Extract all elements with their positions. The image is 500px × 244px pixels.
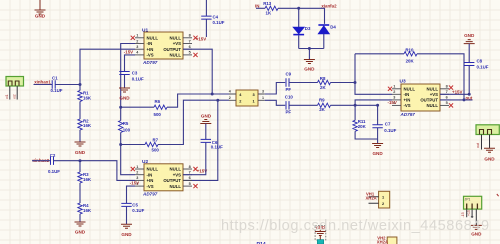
svg-text:8: 8 [189,34,191,38]
wire rail to ground [308,49,310,60]
resistor R11 wire from node [354,105,356,120]
capacitor C6 [201,139,211,142]
junction C7 top [376,104,379,107]
svg-text:7: 7 [446,90,448,94]
svg-text:7: 7 [189,171,191,175]
svg-text:7: 7 [189,39,191,43]
svg-text:-VS: -VS [147,53,154,58]
svg-text:2: 2 [136,171,138,175]
svg-text:1: 1 [136,165,138,169]
svg-text:JP1: JP1 [465,198,471,202]
node A junction [79,83,82,86]
svg-text:U3: U3 [400,79,406,85]
resistor R6 [154,105,167,109]
capacitor C7 wire from node [377,105,379,124]
svg-text:R8: R8 [320,76,326,81]
wire R6 left [121,106,154,108]
svg-text:U1: U1 [142,27,148,33]
svg-text:5: 5 [446,101,448,105]
op-amp U2 AD797 [144,164,183,191]
svg-text:AD797: AD797 [142,60,158,65]
svg-text:GND: GND [75,230,86,235]
svg-text:U2: U2 [142,159,148,165]
svg-text:3: 3 [136,45,138,49]
no-connect X on U1 pin 5 [193,53,197,57]
wire U2 output up [183,100,218,180]
wire R9 to U3 +IN and C7 top [331,100,393,105]
svg-text:NULL: NULL [170,184,182,189]
svg-text:20K: 20K [406,58,415,63]
svg-text:16K: 16K [83,208,92,213]
wire C3 to ground [124,75,126,88]
svg-text:5: 5 [189,182,191,186]
svg-text:+15V: +15V [196,36,206,41]
svg-text:500: 500 [154,112,162,117]
capacitor C5 [121,203,131,206]
filter pin stubs [229,94,265,100]
wire R2 to ground [79,130,81,142]
svg-text:-IN: -IN [147,41,153,46]
no-connect X on U1 pin 8 [193,36,197,40]
capacitor C4 +15V decoupling wire [205,0,207,16]
svg-text:GND: GND [304,67,315,72]
connector CON2 leads [482,135,490,150]
wire ground to C8 [468,44,470,63]
capacitor C3 wire from U1 -VS [125,55,136,71]
svg-text:0.1UF: 0.1UF [213,20,225,25]
svg-text:1: 1 [136,34,138,38]
svg-text:+IN: +IN [147,47,154,52]
diode D3 [293,27,304,33]
wire U3 +VS pin 7 [440,93,469,95]
connector CON1 pin leads [10,86,17,100]
svg-text:C3: C3 [132,71,138,76]
capacitor C9 [286,78,289,86]
svg-text:C10: C10 [285,94,294,99]
wire node B to U2 +IN [80,161,135,181]
svg-text:IN: IN [255,3,259,8]
svg-text:PF: PF [286,110,292,115]
ground (CON2) [484,148,495,152]
svg-text:R6: R6 [155,99,161,104]
ground (below R4) [75,222,86,226]
resistor R3 [78,172,82,183]
svg-text:C5: C5 [132,202,138,207]
svg-text:OUTPUT: OUTPUT [163,178,181,183]
svg-text:6: 6 [446,96,448,100]
svg-text:NULL: NULL [147,36,159,41]
wire node A down to R1 [79,85,81,91]
no-connect X on U2 pin 5 [193,184,197,188]
connector CON2 (output, top right) [476,125,499,135]
junction R10 tap [354,81,357,84]
wire R10 left horizontal [355,53,404,55]
svg-text:1K: 1K [266,11,272,16]
wire R3 to R4 [79,183,81,203]
capacitor C10 [286,101,289,109]
svg-text:+VS: +VS [430,92,438,97]
svg-text:0.1UF: 0.1UF [132,208,144,213]
svg-text:D3: D3 [305,26,311,31]
wire R11 bottom to ground stem [355,131,378,139]
svg-text:C7: C7 [385,122,391,127]
svg-text:-VS: -VS [147,184,154,189]
resistor R2 [78,119,82,130]
svg-text:-15V: -15V [388,100,397,105]
wire ground to C6 [205,124,207,140]
junction U1 output node [211,93,214,96]
node R6 tap junction [119,106,122,109]
wire C2 to node B [54,160,81,162]
wire U1 output to filter pin 4 [212,93,229,95]
svg-text:0.1UF: 0.1UF [48,169,60,174]
junction diode ground [308,47,311,50]
wire into R13 [256,7,265,9]
svg-text:C2: C2 [50,153,56,158]
wire xinhao2 to C2 [32,160,50,162]
ground (C5) [121,224,132,228]
svg-text:OUTPUT: OUTPUT [420,98,438,103]
wire C10 to R9 [289,104,318,106]
connector P1 leads [467,209,477,225]
wire R10 left vertical [354,54,356,83]
svg-text:+15V: +15V [452,89,462,94]
wire D3 to bottom rail [298,35,300,48]
selected ground power port (bottom middle) [315,226,326,241]
capacitor C1 [52,80,55,88]
svg-text:GND: GND [75,150,86,155]
resistor R4 [78,203,82,214]
svg-text:2: 2 [136,39,138,43]
svg-text:3: 3 [262,90,264,94]
svg-text:GND: GND [484,156,495,161]
svg-text:8: 8 [446,85,448,89]
svg-text:AD797: AD797 [142,191,158,196]
capacitor C2 [51,157,54,165]
op-amp U1 AD797 [144,32,183,59]
connector VH1 box [379,191,390,208]
svg-text:4: 4 [229,90,231,94]
svg-text:1: 1 [393,85,395,89]
svg-text:NULL: NULL [170,167,182,172]
svg-text:+VS: +VS [173,172,181,177]
no-connect X on U2 pin 1 [131,167,135,171]
svg-text:R9: R9 [319,97,325,102]
svg-text:5: 5 [189,51,191,55]
svg-text:GND: GND [201,114,212,119]
svg-text:-15V: -15V [124,50,133,55]
wire R6 to U1 output net [167,94,212,107]
svg-text:1: 1 [262,96,264,100]
connector P1 (power, bottom right) [464,196,482,209]
wire node B down to R3 [79,161,81,172]
resistor R8 [318,80,331,84]
svg-text:3: 3 [393,96,395,100]
wire D4 to bottom rail [323,34,325,49]
svg-text:NULL: NULL [147,167,159,172]
wire C9 to R8 [289,82,318,84]
capacitor C5 wire from U2 -VS [127,186,136,203]
svg-text:-IN: -IN [404,92,410,97]
op-amp U3 AD797 [401,84,440,111]
connector VH2 box (clipped) [387,237,397,244]
capacitor C3 [119,72,129,75]
resistor R9 [318,103,331,107]
wire R5 to U2 -IN [121,133,135,175]
wire C7 to ground [377,128,379,144]
svg-text:C4: C4 [213,15,219,20]
svg-text:3: 3 [136,176,138,180]
junction C8 [468,93,471,96]
junction U2 output node [216,99,219,102]
svg-text:out: out [466,95,473,100]
svg-text:OUTPUT: OUTPUT [163,47,181,52]
filter component (4-pin) box [236,90,258,106]
resistor R13 [265,6,278,10]
resistor R7 [145,142,158,146]
wire C8 to U3 +VS wire [468,66,470,95]
capacitor C7 [372,125,382,128]
svg-text:-VS: -VS [404,103,411,108]
svg-text:2: 2 [393,90,395,94]
svg-text:+IN: +IN [404,98,411,103]
no-connect X on U2 pin 8 [193,167,197,171]
wire R7 to U2 output net [158,100,218,144]
node R7 tap junction [119,143,122,146]
wire R4 to ground [79,214,81,222]
svg-text:C9: C9 [286,72,292,77]
wire R8 to U3 -IN [331,83,393,95]
ground (C3) [119,88,130,92]
svg-text:GND: GND [372,151,383,156]
svg-text:NULL: NULL [404,87,416,92]
junction diode D3 branch [297,7,300,10]
ground (R11/C7) [372,144,383,148]
svg-text:0.1UF: 0.1UF [132,76,144,81]
svg-text:0.1UF: 0.1UF [477,64,489,69]
wire filter pin3 to C9 [265,83,285,95]
svg-text:NULL: NULL [170,53,182,58]
svg-text:500: 500 [152,147,160,152]
diode D4 [318,24,329,26]
svg-text:+IN: +IN [147,178,154,183]
svg-text:xi1: xi1 [5,94,9,99]
svg-text:0.1UF: 0.1UF [211,145,223,150]
junction R11 tap [354,104,357,107]
ground (top-left) [39,0,41,10]
no-connect X on U3 pin 1 [388,87,392,91]
svg-text:6: 6 [189,45,191,49]
resistor R11 [353,120,357,131]
wire xinhao1 to C1 [34,84,53,86]
wire C6 to U2 +VS pin [183,143,206,175]
svg-text:GND: GND [464,33,475,38]
svg-text:-15V: -15V [130,181,139,186]
wire U2 output to filter pin 2 [218,99,229,101]
svg-text:R7: R7 [153,137,159,142]
wire C4 down to +15V stub [205,19,207,37]
resistor R1 [78,91,82,102]
ground (below R2) [75,142,86,146]
resistor R5 [119,121,123,133]
no-connect X on U3 pin 5 [449,103,453,107]
svg-text:R5: R5 [123,121,129,126]
svg-text:xi2: xi2 [13,94,17,99]
svg-text:xinhao1: xinhao1 [34,80,51,85]
svg-text:100: 100 [123,128,131,133]
diode bottom rail [299,48,324,50]
svg-text:2: 2 [229,96,231,100]
wire U1 output down [183,49,212,94]
svg-text:16K: 16K [83,95,92,100]
wire down to D3 [298,8,300,27]
svg-text:NULL: NULL [427,103,439,108]
svg-text:D4: D4 [330,24,336,29]
svg-text:xianfa2: xianfa2 [321,3,337,8]
wire R10 to output node [417,54,464,100]
no-connect X on U1 pin 1 [131,36,135,40]
wire C1 to node A [55,84,80,86]
ground (P1) [471,225,482,229]
svg-text:PF: PF [286,87,292,92]
svg-text:-IN: -IN [147,172,153,177]
svg-text:https://blog.csdn.net/weixin_4: https://blog.csdn.net/weixin_44586849 [221,218,490,234]
svg-text:out: out [476,143,480,148]
svg-text:+15: +15 [467,210,471,216]
svg-text:6: 6 [189,176,191,180]
wire C5 to ground [126,207,128,225]
svg-text:20K: 20K [358,124,367,129]
svg-text:16K: 16K [83,177,92,182]
svg-text:R10: R10 [405,47,414,52]
wire R1 to R2 [79,102,81,120]
svg-text:XH2A: XH2A [366,196,377,201]
junction output / R10 [463,98,466,101]
svg-text:+VS: +VS [173,41,181,46]
svg-text:R13: R13 [263,1,272,6]
no-connect X on U3 pin 8 [449,86,453,90]
svg-text:GND: GND [35,14,46,19]
wire R7 left [121,144,145,146]
svg-text:2K: 2K [320,85,326,90]
capacitor C4 [201,16,211,19]
svg-text:AD797: AD797 [400,112,416,117]
wire filter pin1 to C10 [265,100,285,105]
svg-text:XH2A: XH2A [377,240,388,244]
svg-text:GND: GND [119,95,130,100]
svg-text:2K: 2K [319,107,325,112]
node B junction [79,159,82,162]
svg-text:NULL: NULL [427,87,439,92]
wire R13 to diodes [278,8,325,24]
resistor R10 [404,52,417,56]
wire node A up to U1 +IN [80,49,135,84]
VH1 pin stubs [369,197,379,204]
svg-text:0.1UF: 0.1UF [384,128,396,133]
connector CON1 (audio input, left) [6,77,24,87]
ground (diodes) [304,60,315,64]
svg-text:0.1UF: 0.1UF [51,88,63,93]
svg-text:GND: GND [121,232,132,237]
wire U1 -IN feedback vertical [121,44,135,121]
tiny red mark right edge [497,194,499,196]
svg-text:8: 8 [189,165,191,169]
svg-text:NULL: NULL [170,36,182,41]
svg-text:16K: 16K [83,123,92,128]
capacitor C8 [464,63,474,66]
wire U3 output [440,99,473,101]
svg-text:-15: -15 [461,212,465,217]
svg-text:C8: C8 [477,59,483,64]
svg-text:C1: C1 [52,76,58,81]
